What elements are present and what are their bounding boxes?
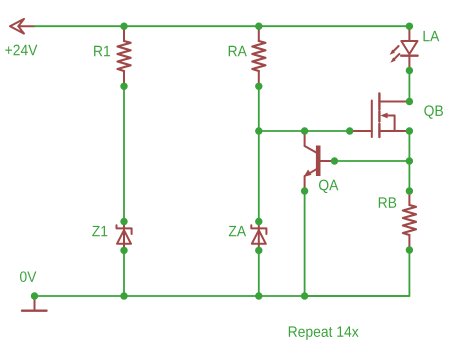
node rail / QA emitter [301, 292, 308, 299]
node RB bottom [406, 246, 413, 253]
label QB [424, 105, 443, 118]
resistor RA [252, 26, 265, 86]
node base row right [406, 157, 413, 164]
resistor R1 [118, 26, 131, 86]
label QA [319, 180, 338, 193]
node rail / ZA [255, 292, 262, 299]
wire ZA to bottom rail [258, 250, 260, 296]
node top rail / R1 [120, 23, 127, 30]
node gate row / QA collector [301, 127, 308, 134]
wire gate row [259, 130, 350, 132]
label +24V [5, 45, 37, 56]
node ZA top [255, 218, 262, 225]
wire QB source node down [408, 131, 410, 191]
resistor RB [403, 191, 416, 250]
zener diode Z1 [117, 222, 132, 251]
node LED cathode [406, 67, 413, 74]
wire top rail [35, 25, 410, 27]
label ZA [229, 226, 246, 236]
npn transistor QA [304, 131, 335, 191]
label RB [379, 197, 396, 207]
node top rail / LA [406, 23, 413, 30]
node QB source [406, 127, 413, 134]
wire LED to QB drain [408, 71, 410, 102]
supply arrow +24V [10, 19, 35, 34]
wire R1 to Z1 [123, 86, 125, 221]
wire Z1 to bottom rail [123, 250, 125, 296]
label Z1 [92, 226, 107, 236]
node ZA bottom [255, 247, 262, 254]
label Repeat 14x [289, 326, 359, 340]
wire QA emitter to bottom rail [304, 191, 306, 296]
label R1 [94, 46, 110, 56]
node R1 bottom [120, 83, 127, 90]
node ground [31, 292, 38, 299]
node top rail / RA [255, 23, 262, 30]
node gate row / QB gate [346, 127, 353, 134]
wire RA to ZA and gate node [258, 86, 260, 221]
label RA [229, 46, 247, 56]
node Z1 bottom [120, 247, 127, 254]
node QA emitter [301, 187, 308, 194]
label 0V [20, 271, 36, 282]
node rail / Z1 [120, 292, 127, 299]
node RB top [406, 187, 413, 194]
node Z1 top [120, 218, 127, 225]
wire bottom rail [35, 295, 410, 297]
ground symbol 0V [22, 296, 47, 311]
node QA base [331, 157, 338, 164]
wire RB to bottom rail corner [305, 250, 410, 296]
zener diode ZA [251, 222, 266, 251]
LED LA [390, 26, 418, 70]
node gate row left [255, 127, 262, 134]
node RA bottom [255, 83, 262, 90]
n-mosfet QB [350, 94, 410, 138]
wire QA base row [335, 160, 410, 162]
node QB drain [406, 98, 413, 105]
label LA [423, 31, 439, 41]
